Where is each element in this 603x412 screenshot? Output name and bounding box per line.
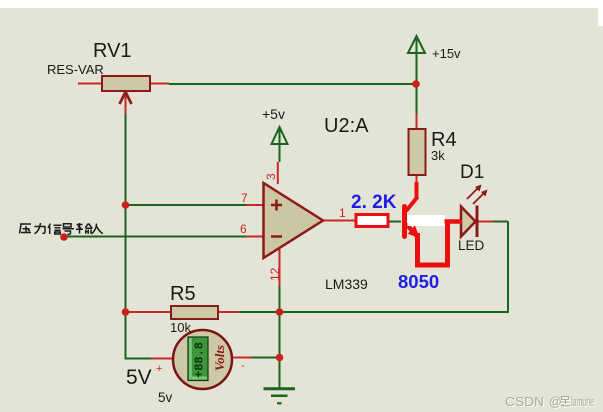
svg-text:U2:A: U2:A: [324, 115, 369, 137]
svg-text:12: 12: [268, 267, 282, 281]
svg-text:10k: 10k: [170, 320, 191, 335]
svg-text:1: 1: [339, 206, 346, 220]
svg-text:+5v: +5v: [262, 106, 285, 122]
svg-text:8050: 8050: [398, 271, 439, 292]
svg-text:+88.8: +88.8: [193, 342, 207, 378]
svg-text:RV1: RV1: [93, 40, 132, 62]
svg-text:R5: R5: [170, 283, 196, 305]
svg-text:@: @: [549, 395, 562, 409]
svg-text:3: 3: [264, 173, 278, 180]
svg-text:RES-VAR: RES-VAR: [47, 62, 104, 77]
svg-text:lamune: lamune: [571, 395, 594, 409]
svg-text:2. 2K: 2. 2K: [351, 192, 397, 213]
svg-text:3k: 3k: [431, 148, 445, 163]
svg-text:5V: 5V: [126, 366, 152, 389]
svg-text:LED: LED: [458, 238, 485, 253]
svg-text:5v: 5v: [158, 390, 173, 405]
svg-text:Volts: Volts: [212, 345, 227, 371]
svg-text:-: -: [241, 360, 245, 372]
svg-text:+: +: [156, 363, 162, 375]
svg-text:LM339: LM339: [325, 276, 368, 292]
svg-text:7: 7: [241, 191, 248, 205]
svg-text:6: 6: [240, 222, 247, 236]
svg-text:CSDN: CSDN: [505, 395, 544, 409]
svg-text:+15v: +15v: [432, 46, 461, 61]
svg-text:D1: D1: [460, 162, 484, 183]
